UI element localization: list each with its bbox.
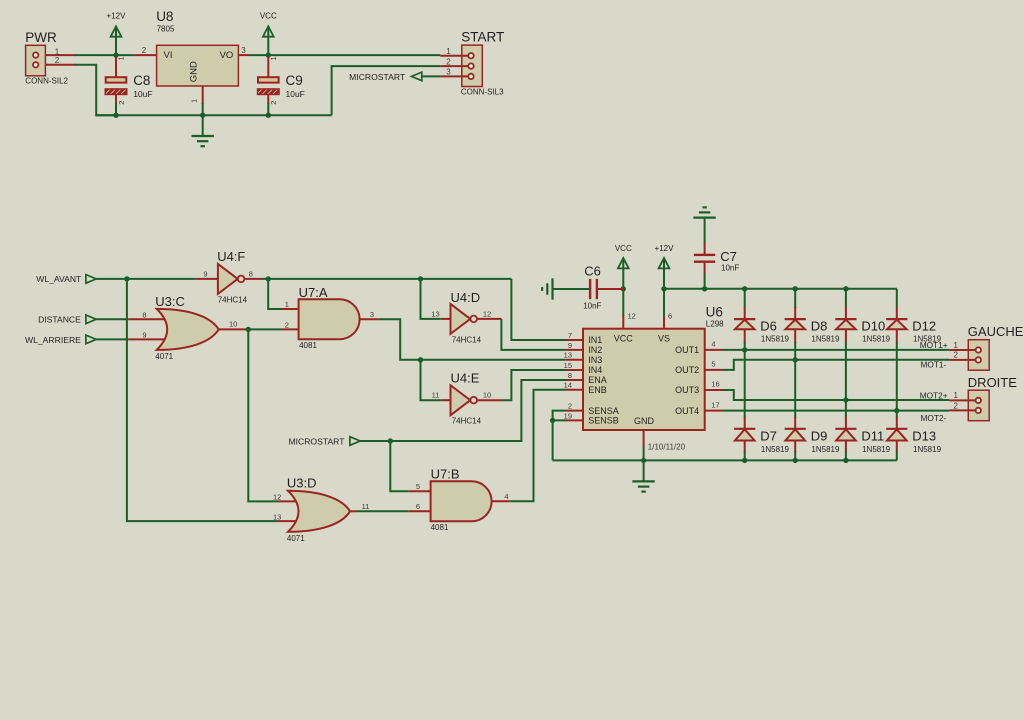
svg-text:1N5819: 1N5819 xyxy=(913,445,942,454)
wire DISTANCE to U3:C pin8 xyxy=(96,318,128,320)
svg-text:10nF: 10nF xyxy=(721,263,739,272)
svg-text:16: 16 xyxy=(711,380,719,389)
inverter U4:F 74HC14 xyxy=(196,249,262,304)
junction C7 / +12V rail xyxy=(702,286,707,291)
svg-text:IN1: IN1 xyxy=(588,335,602,345)
U6 pin 17 OUT4 xyxy=(705,400,723,410)
U6 pin 12 VCC xyxy=(623,311,636,328)
svg-text:+12V: +12V xyxy=(107,12,127,21)
U6 pin 2 SENSA xyxy=(565,402,583,411)
svg-text:MOT1-: MOT1- xyxy=(920,360,946,370)
svg-text:ENB: ENB xyxy=(588,385,607,395)
wire top line to U6 IN1 xyxy=(511,279,565,340)
junction SENSA/SENSB xyxy=(550,418,555,423)
svg-text:1N5819: 1N5819 xyxy=(862,445,891,454)
ground (inverted) above C7 xyxy=(693,207,715,217)
svg-text:VO: VO xyxy=(220,50,234,61)
svg-text:VI: VI xyxy=(164,50,173,61)
svg-text:D8: D8 xyxy=(811,318,828,333)
junction U8 GND / ground rail xyxy=(200,113,205,118)
svg-text:13: 13 xyxy=(431,309,439,318)
svg-text:7805: 7805 xyxy=(157,25,175,34)
wire U8 VO to VCC node xyxy=(250,54,268,56)
wire OUT3 / MOT2+ line xyxy=(723,390,950,400)
capacitor C7 10nF xyxy=(694,218,739,289)
junction gnd rail / D7 xyxy=(742,458,747,463)
svg-text:10uF: 10uF xyxy=(133,89,152,99)
svg-text:START: START xyxy=(461,30,504,45)
svg-text:PWR: PWR xyxy=(25,30,57,45)
wire rail corner down to D12 xyxy=(896,289,898,307)
svg-text:2: 2 xyxy=(269,101,278,105)
svg-text:U4:D: U4:D xyxy=(451,290,481,305)
svg-text:12: 12 xyxy=(483,309,491,318)
connector DROITE CONN-SIL2 xyxy=(968,375,1017,421)
ground symbol below U6 xyxy=(632,460,654,491)
svg-text:13: 13 xyxy=(273,512,281,521)
U6 GND pin 1/10/11/20 xyxy=(644,430,686,460)
junction MOT1-/D8-D9 xyxy=(793,357,798,362)
wire OUT4 / MOT2- line xyxy=(723,410,950,412)
terminal WL_ARRIERE xyxy=(25,335,96,345)
wire MICROSTART to ENA riser xyxy=(360,380,565,441)
capacitor C6 10nF xyxy=(553,263,624,310)
power symbol VCC (top) xyxy=(260,12,277,56)
svg-text:4081: 4081 xyxy=(299,341,317,350)
U6 pin 13 IN3 xyxy=(564,351,583,360)
svg-text:IN2: IN2 xyxy=(588,345,602,355)
svg-text:VCC: VCC xyxy=(260,12,277,21)
ground (rotated) at C6 xyxy=(542,278,552,299)
svg-text:1: 1 xyxy=(55,47,60,56)
U6 pin 15 IN4 xyxy=(564,361,583,370)
svg-text:OUT3: OUT3 xyxy=(675,385,699,395)
connector J-PWR CONN-SIL2 xyxy=(25,30,68,85)
diode D12 1N5819 xyxy=(886,307,941,411)
junction IN3 line / U4:E branch xyxy=(418,357,423,362)
wire U7:B output to ENB riser xyxy=(510,390,565,502)
junction +12V / C8 top xyxy=(113,52,118,57)
svg-text:2: 2 xyxy=(953,401,958,410)
svg-text:1: 1 xyxy=(190,99,199,103)
junction rail/D8 xyxy=(793,286,798,291)
svg-text:4071: 4071 xyxy=(155,352,173,361)
connector J-START CONN-SIL3 xyxy=(461,30,504,97)
wire down to U7:A pin1 xyxy=(268,279,282,309)
U6 pin 19 SENSB xyxy=(564,411,583,420)
svg-text:2: 2 xyxy=(285,321,289,330)
svg-text:C6: C6 xyxy=(584,263,601,278)
svg-text:4: 4 xyxy=(504,492,508,501)
svg-text:14: 14 xyxy=(564,381,572,390)
regulator U8 7805 xyxy=(156,9,238,86)
svg-text:OUT2: OUT2 xyxy=(675,365,699,375)
svg-text:2: 2 xyxy=(117,101,126,105)
U8 pin 3 VO xyxy=(238,46,250,55)
U6 pin 8 ENA xyxy=(565,371,583,380)
U6 pin 9 IN2 xyxy=(565,341,583,350)
svg-text:2: 2 xyxy=(953,351,958,360)
junction rail/D10 xyxy=(843,286,848,291)
power symbol +12V (middle) xyxy=(655,244,675,289)
svg-text:GAUCHE: GAUCHE xyxy=(968,324,1024,339)
wire OUT1 / MOT1+ line xyxy=(723,349,950,351)
svg-text:1: 1 xyxy=(269,56,278,60)
svg-text:GND: GND xyxy=(189,61,200,82)
DROITE pin 2 xyxy=(949,401,975,410)
svg-text:OUT1: OUT1 xyxy=(675,345,699,355)
svg-text:10nF: 10nF xyxy=(583,302,601,311)
START pin 1 xyxy=(440,47,468,56)
U6 pin 6 VS xyxy=(664,311,672,328)
svg-text:SENSB: SENSB xyxy=(588,416,619,426)
svg-text:1: 1 xyxy=(117,56,126,60)
START pin 3 xyxy=(440,68,468,77)
junction +12V rail xyxy=(661,286,666,291)
svg-text:1: 1 xyxy=(953,341,958,350)
diode D9 1N5819 xyxy=(785,360,840,461)
svg-text:2: 2 xyxy=(568,402,572,411)
junction MOT2-/D12-D13 xyxy=(894,408,899,413)
ground rail of power section xyxy=(96,114,331,116)
U6 pin 14 ENB xyxy=(564,381,583,390)
svg-text:OUT4: OUT4 xyxy=(675,406,699,416)
svg-text:19: 19 xyxy=(564,411,572,420)
svg-text:U3:C: U3:C xyxy=(155,294,185,309)
svg-text:D10: D10 xyxy=(861,318,885,333)
power symbol VCC (middle) xyxy=(615,244,632,289)
wire VCC node to START pin1 xyxy=(268,54,440,56)
svg-text:12: 12 xyxy=(273,493,281,502)
svg-text:7: 7 xyxy=(568,331,572,340)
wire down to U7:B pin5 xyxy=(390,441,409,491)
svg-text:1/10/11/20: 1/10/11/20 xyxy=(648,443,686,452)
svg-text:GND: GND xyxy=(634,416,655,426)
svg-text:U8: U8 xyxy=(156,9,173,24)
svg-text:10: 10 xyxy=(229,320,237,329)
wire U7:A output to U6 IN3 xyxy=(378,319,565,360)
svg-text:1: 1 xyxy=(285,300,289,309)
diode D8 1N5819 xyxy=(785,289,840,360)
inverter U4:E 74HC14 xyxy=(432,370,502,425)
junction rail/D6 xyxy=(742,286,747,291)
wire down to U4:D input xyxy=(421,279,441,319)
diode D6 1N5819 xyxy=(734,289,789,350)
svg-text:13: 13 xyxy=(564,351,572,360)
svg-text:2: 2 xyxy=(446,57,451,66)
svg-text:12: 12 xyxy=(628,311,636,320)
svg-text:CONN-SIL3: CONN-SIL3 xyxy=(461,87,504,96)
svg-text:MOT1+: MOT1+ xyxy=(920,340,948,350)
svg-text:1N5819: 1N5819 xyxy=(761,334,790,343)
wire WL_AVANT to U4:F input xyxy=(96,278,196,280)
svg-text:IN3: IN3 xyxy=(588,355,602,365)
svg-text:4081: 4081 xyxy=(431,523,449,532)
diode D11 1N5819 xyxy=(835,400,890,460)
wire U4:E output to U6 IN4 xyxy=(501,370,565,400)
svg-text:MOT2+: MOT2+ xyxy=(920,390,948,400)
svg-text:D12: D12 xyxy=(912,318,936,333)
wire U3:D output to U7:B pin6 xyxy=(357,510,409,512)
wire START pin2 to ground rail xyxy=(332,66,441,115)
svg-text:U7:A: U7:A xyxy=(299,285,328,300)
svg-text:+12V: +12V xyxy=(655,244,675,253)
svg-text:11: 11 xyxy=(432,391,440,400)
svg-text:1N5819: 1N5819 xyxy=(862,334,891,343)
wire down to U4:E input xyxy=(421,360,441,400)
top +12V rail xyxy=(664,288,897,290)
svg-text:2: 2 xyxy=(55,56,60,65)
U8 pin 2 VI xyxy=(133,46,157,55)
svg-text:8: 8 xyxy=(568,371,572,380)
svg-text:C9: C9 xyxy=(286,73,303,88)
svg-text:3: 3 xyxy=(446,68,451,77)
svg-text:11: 11 xyxy=(362,502,370,511)
junction WL_AVANT branch xyxy=(124,276,129,281)
driver U6 L298 xyxy=(583,304,724,430)
svg-text:CONN-SIL2: CONN-SIL2 xyxy=(25,76,68,85)
terminal MICROSTART (near START) xyxy=(349,72,422,82)
svg-text:3: 3 xyxy=(370,310,374,319)
terminal WL_AVANT xyxy=(36,274,96,284)
svg-text:1N5819: 1N5819 xyxy=(811,334,840,343)
svg-text:MICROSTART: MICROSTART xyxy=(288,436,345,446)
wire U4:F output east xyxy=(262,278,511,280)
and-gate U7:B 4081 xyxy=(409,467,511,533)
svg-text:C7: C7 xyxy=(720,249,737,264)
svg-text:D7: D7 xyxy=(760,429,777,444)
junction MICROSTART / U7:B pin5 branch xyxy=(388,438,393,443)
wire VCC node down to pin12 xyxy=(622,289,624,316)
svg-text:6: 6 xyxy=(416,502,420,511)
svg-text:74HC14: 74HC14 xyxy=(218,295,248,304)
svg-text:15: 15 xyxy=(564,361,572,370)
capacitor C9 10uF xyxy=(258,56,305,115)
junction MOT2+/D10-D11 xyxy=(843,397,848,402)
svg-text:9: 9 xyxy=(203,269,207,278)
svg-text:8: 8 xyxy=(142,311,146,320)
junction C8 bottom / ground rail xyxy=(113,113,118,118)
GAUCHE pin 2 xyxy=(949,351,975,360)
power symbol +12V xyxy=(107,12,127,56)
svg-text:1N5819: 1N5819 xyxy=(811,445,840,454)
junction VCC / C9 top xyxy=(266,52,271,57)
svg-text:9: 9 xyxy=(568,341,572,350)
svg-text:74HC14: 74HC14 xyxy=(452,417,482,426)
svg-text:17: 17 xyxy=(711,400,719,409)
svg-text:MICROSTART: MICROSTART xyxy=(349,72,406,82)
svg-text:U3:D: U3:D xyxy=(287,476,317,491)
and-gate U7:A 4081 xyxy=(282,285,378,350)
svg-text:4: 4 xyxy=(711,340,715,349)
wire U4:D output to U6 IN2 xyxy=(501,319,565,350)
wire PWR pin2 to ground rail xyxy=(75,65,117,115)
svg-text:D6: D6 xyxy=(760,318,777,333)
svg-text:10: 10 xyxy=(483,391,491,400)
svg-text:10uF: 10uF xyxy=(286,89,305,99)
svg-text:6: 6 xyxy=(668,311,672,320)
svg-text:U4:E: U4:E xyxy=(451,370,480,385)
wire +12V node to U8 VI xyxy=(116,54,133,56)
wire WL_AVANT down to U3:D pin13 xyxy=(127,279,278,521)
junction gnd rail / D9 xyxy=(793,458,798,463)
wire +12V node down to pin6 VS xyxy=(663,289,665,316)
U6 pin 7 IN1 xyxy=(565,331,583,340)
inverter U4:D 74HC14 xyxy=(431,290,501,345)
svg-text:74HC14: 74HC14 xyxy=(452,336,482,345)
wire OUT2 / MOT1- line xyxy=(723,360,950,370)
svg-text:C8: C8 xyxy=(133,73,150,88)
svg-text:8: 8 xyxy=(249,269,253,278)
junction OUT1/D6-D7 xyxy=(742,347,747,352)
svg-text:VCC: VCC xyxy=(615,244,632,253)
svg-text:3: 3 xyxy=(241,46,246,55)
junction top line / U4:D branch xyxy=(418,276,423,281)
svg-text:IN4: IN4 xyxy=(588,365,602,375)
svg-text:VCC: VCC xyxy=(614,334,634,344)
svg-text:MOT2-: MOT2- xyxy=(920,413,946,423)
svg-text:1: 1 xyxy=(446,47,451,56)
diode D10 1N5819 xyxy=(835,289,890,400)
svg-text:L298: L298 xyxy=(706,319,724,328)
svg-text:SENSA: SENSA xyxy=(588,406,619,416)
terminal MICROSTART (middle) xyxy=(288,436,360,446)
svg-text:ENA: ENA xyxy=(588,375,607,385)
diode D13 1N5819 xyxy=(886,411,941,461)
svg-text:5: 5 xyxy=(711,360,715,369)
capacitor C8 10uF xyxy=(105,56,152,115)
START pin 2 xyxy=(440,57,468,66)
U6 pin 16 OUT3 xyxy=(705,380,723,390)
svg-text:U6: U6 xyxy=(706,304,723,319)
wire WL_ARRIERE to U3:C pin9 xyxy=(96,338,128,340)
PWR pin 1 xyxy=(45,47,75,56)
svg-text:1: 1 xyxy=(953,391,958,400)
diode D7 1N5819 xyxy=(734,350,789,461)
svg-text:D13: D13 xyxy=(912,429,936,444)
svg-text:D9: D9 xyxy=(811,429,828,444)
svg-text:WL_ARRIERE: WL_ARRIERE xyxy=(25,335,81,345)
PWR pin 2 xyxy=(45,56,75,65)
wire SENSB node down to ground rail xyxy=(553,420,565,460)
svg-text:9: 9 xyxy=(142,331,146,340)
junction gnd rail / D11 xyxy=(843,458,848,463)
junction U3:C output branch xyxy=(246,327,251,332)
or-gate U3:C 4071 xyxy=(128,294,246,361)
bottom ground rail xyxy=(553,459,897,461)
terminal DISTANCE xyxy=(38,315,96,325)
svg-text:U4:F: U4:F xyxy=(217,249,245,264)
svg-text:DROITE: DROITE xyxy=(968,375,1017,390)
wire U3:C output to U7:A pin2 xyxy=(246,328,282,330)
wire START pin3 to MICROSTART terminal xyxy=(422,75,441,77)
svg-text:U7:B: U7:B xyxy=(431,467,460,482)
U6 pin 5 OUT2 xyxy=(705,360,723,370)
svg-text:1N5819: 1N5819 xyxy=(761,445,790,454)
connector GAUCHE CONN-SIL2 xyxy=(968,324,1024,370)
U6 pin 4 OUT1 xyxy=(705,340,723,350)
or-gate U3:D 4071 xyxy=(273,476,357,543)
svg-text:VS: VS xyxy=(658,334,670,344)
GAUCHE pin 1 xyxy=(949,341,975,350)
svg-text:DISTANCE: DISTANCE xyxy=(38,315,81,325)
junction U4:F output / U7:A pin1 branch xyxy=(266,276,271,281)
svg-text:D11: D11 xyxy=(861,429,884,444)
DROITE pin 1 xyxy=(949,391,975,400)
svg-text:WL_AVANT: WL_AVANT xyxy=(36,274,82,284)
wire SENSA to SENSB node xyxy=(553,411,565,421)
U8 pin 1 GND xyxy=(190,86,203,115)
junction C9 bottom / ground rail xyxy=(266,113,271,118)
svg-text:5: 5 xyxy=(416,482,420,491)
svg-text:4071: 4071 xyxy=(287,534,305,543)
wire U3:C output down to U3:D pin12 xyxy=(248,329,277,501)
svg-text:2: 2 xyxy=(142,46,147,55)
ground symbol below U8 xyxy=(192,115,214,146)
wire PWR pin1 to +12V node xyxy=(75,54,117,56)
junction gnd rail / U6 GND xyxy=(641,458,646,463)
junction VCC / C6 xyxy=(621,286,626,291)
